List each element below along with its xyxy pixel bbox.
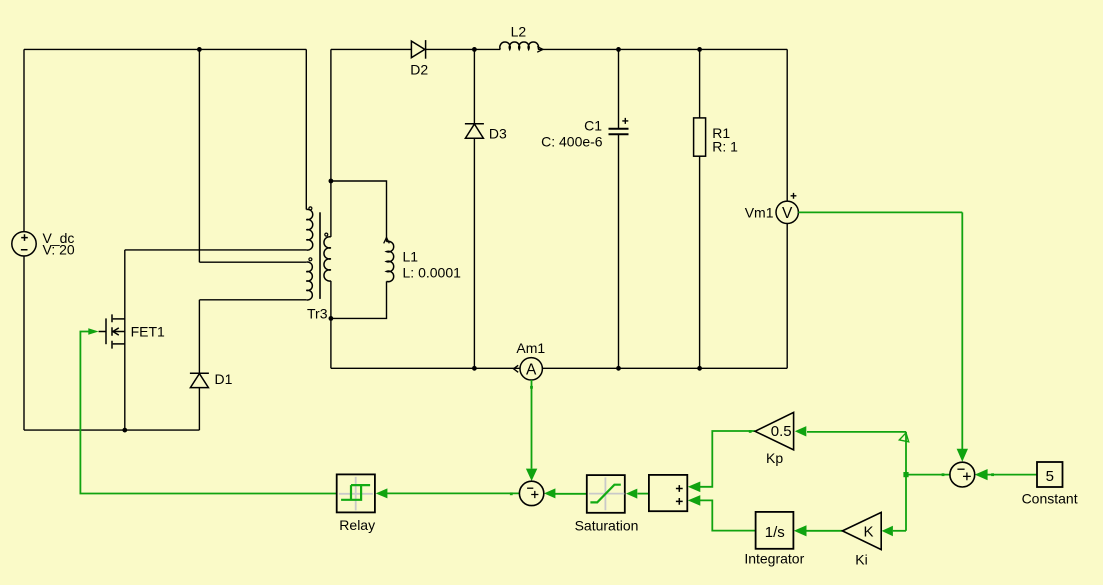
transformer Tr3 secondary winding bbox=[324, 237, 331, 281]
wire primary2 bottom to D1 bbox=[198, 300, 200, 374]
voltmeter Vm1 bbox=[776, 201, 798, 223]
inductor L2 arrow bbox=[537, 47, 543, 53]
inductor L1 bbox=[387, 241, 394, 281]
wire bottom bus right (Am1 to Vm1 corner) bbox=[542, 367, 787, 369]
wire D3 branch lower bbox=[473, 138, 475, 368]
diode D3 bbox=[465, 124, 484, 139]
svg-text:A: A bbox=[526, 362, 537, 379]
wire Integrator output to sum3 bbox=[700, 500, 756, 530]
transformer Tr3 primary 1 polarity dot bbox=[309, 207, 312, 210]
relay gray axes bbox=[339, 477, 373, 511]
wire corner to Ki input bbox=[893, 530, 906, 532]
transformer Tr3 primary 2 polarity dot bbox=[309, 258, 312, 261]
svg-text:Integrator: Integrator bbox=[744, 551, 804, 567]
port stub tick Constant output bbox=[991, 473, 994, 476]
svg-text:FET1: FET1 bbox=[131, 324, 165, 340]
svg-text:L1: L1 bbox=[403, 248, 419, 264]
wire L1 top branch bbox=[331, 181, 387, 242]
arrow into Kp bbox=[795, 426, 807, 436]
svg-text:D1: D1 bbox=[215, 371, 233, 387]
svg-text:C: 400e-6: C: 400e-6 bbox=[541, 134, 603, 150]
port stub tick Kp output bbox=[749, 430, 752, 433]
inductor L2 bbox=[500, 42, 539, 49]
svg-text:Constant: Constant bbox=[1022, 491, 1078, 507]
arrow into sum2 from Constant bbox=[975, 469, 988, 480]
sum2 plus sign bbox=[963, 473, 971, 481]
svg-text:D3: D3 bbox=[489, 125, 507, 141]
arrow into Integrator bbox=[794, 525, 807, 536]
capacitor C1 bbox=[609, 129, 629, 135]
wire left bus top (V_dc to top bus) bbox=[23, 49, 25, 231]
wire bottom bus right (to Am1) bbox=[331, 367, 520, 369]
arrow into FET gate bbox=[88, 328, 98, 335]
wire junction up to Kp corner bbox=[905, 432, 907, 475]
wire L2 to top right corner bbox=[538, 48, 787, 50]
junction bottom bus at C1 bbox=[616, 366, 621, 371]
wire Saturation output to sum1 bbox=[555, 493, 587, 495]
wire Vm1 to sum2 vertical bbox=[961, 212, 963, 449]
junction square on green wire bbox=[903, 472, 908, 477]
sum1 minus sign bbox=[527, 487, 533, 489]
wire R1 upper bbox=[699, 49, 701, 118]
diode D1 bbox=[190, 373, 209, 387]
transformer Tr3 primary 2 winding bbox=[306, 262, 312, 300]
wire sum3 output to Saturation bbox=[638, 493, 649, 495]
wire Vm1 to sum2 horizontal bbox=[798, 211, 962, 213]
wire Ki output to Integrator bbox=[806, 530, 843, 532]
wire Relay output to FET gate bbox=[80, 332, 336, 494]
wire secondary bottom lead bbox=[330, 281, 332, 368]
junction top bus at R1 bbox=[697, 47, 702, 52]
gain Kp triangle bbox=[755, 412, 794, 450]
arrow into Ki bbox=[882, 526, 893, 536]
voltage source V_dc bbox=[12, 232, 36, 256]
wire primary1 bottom lead bbox=[125, 249, 306, 251]
wire Vm1 upper bbox=[786, 49, 788, 201]
svg-text:V: V bbox=[782, 205, 793, 222]
wire corner to Kp input bbox=[807, 431, 906, 433]
wire vertical x=199 (top bus to primary2 top) bbox=[198, 49, 200, 262]
transformer Tr3 core bbox=[319, 212, 321, 299]
resistor R1 bbox=[694, 118, 706, 156]
wire top bus 1 bbox=[24, 48, 306, 50]
wire primary2 bottom lead bbox=[199, 299, 306, 301]
relay block bbox=[337, 474, 375, 512]
junction secondary bottom / L1 bbox=[329, 316, 334, 321]
arrow into Saturation bbox=[626, 489, 637, 499]
wire left bus bottom (V_dc to bottom bus) bbox=[23, 256, 25, 430]
wire bottom bus left bbox=[24, 429, 199, 431]
junction bottom bus / FET source bbox=[122, 428, 127, 433]
svg-text:Relay: Relay bbox=[339, 517, 375, 533]
svg-text:Ki: Ki bbox=[855, 551, 867, 567]
svg-text:1/s: 1/s bbox=[765, 524, 785, 541]
sum block sum2 bbox=[950, 462, 975, 487]
green control wires bbox=[80, 212, 1037, 530]
wire C1 lower bbox=[618, 135, 620, 368]
wire D3 branch upper bbox=[473, 49, 475, 123]
arrow into sum3 lower bbox=[688, 495, 701, 506]
wire C1 upper bbox=[618, 49, 620, 128]
svg-text:Vm1: Vm1 bbox=[745, 204, 774, 220]
junction top bus at D3 bbox=[472, 47, 477, 52]
arrow into Relay bbox=[376, 488, 388, 498]
svg-text:R: 1: R: 1 bbox=[712, 138, 738, 154]
wire Am1 to sum1 bbox=[531, 380, 533, 469]
wire sum1 output to Relay bbox=[387, 492, 519, 494]
voltmeter Vm1 plus sign bbox=[791, 193, 797, 199]
sum3 plus lower bbox=[676, 498, 683, 505]
sum3 block (++) bbox=[649, 475, 687, 511]
wire primary2 top lead bbox=[199, 261, 306, 263]
wire sum2 output to junction bbox=[906, 474, 950, 476]
sum1 plus sign bbox=[531, 491, 538, 498]
wire primary1 top lead bbox=[305, 49, 307, 209]
svg-text:Kp: Kp bbox=[766, 450, 783, 466]
diode D2 bbox=[411, 40, 425, 59]
svg-text:0.5: 0.5 bbox=[771, 423, 792, 440]
sum3 plus upper bbox=[676, 485, 683, 492]
arrow into sum1 from Am1 bbox=[526, 469, 537, 481]
transformer Tr3 secondary polarity dot bbox=[325, 233, 328, 236]
saturation curve bbox=[590, 485, 620, 503]
saturation block bbox=[587, 475, 625, 513]
wire Constant to sum2 bbox=[977, 474, 1038, 476]
svg-text:Tr3: Tr3 bbox=[307, 306, 328, 322]
wire secondary top lead bbox=[330, 49, 332, 237]
relay hysteresis curve bbox=[341, 485, 370, 500]
arrow into sum1 from Saturation bbox=[544, 488, 555, 498]
svg-text:Saturation: Saturation bbox=[575, 517, 639, 533]
transistor Q FET1 bbox=[99, 314, 125, 348]
transformer Tr3 primary 1 winding bbox=[306, 209, 312, 250]
port stub tick sum2 output bbox=[942, 473, 945, 476]
wire D1 to bottom bus bbox=[198, 388, 200, 431]
junction top bus at x=199 bbox=[197, 47, 202, 52]
junction secondary top / L1 bbox=[329, 179, 334, 184]
svg-text:L2: L2 bbox=[511, 23, 527, 39]
ammeter Am1 arrow bbox=[514, 365, 519, 372]
integrator block bbox=[756, 512, 794, 549]
svg-text:5: 5 bbox=[1046, 468, 1054, 485]
arrow into sum3 upper bbox=[688, 482, 701, 493]
wire L1 bottom branch bbox=[331, 281, 387, 318]
ammeter Am1 bbox=[520, 358, 542, 380]
junction bottom bus at D3 bbox=[472, 366, 477, 371]
wire Kp output to sum3 bbox=[700, 431, 755, 487]
constant block bbox=[1037, 462, 1063, 487]
wire junction down to Ki corner bbox=[905, 475, 907, 531]
port stub tick Am1 output bbox=[530, 386, 533, 389]
wire FET1 drain riser and source drop bbox=[124, 250, 126, 430]
port stub tick sum1 output bbox=[510, 492, 513, 495]
inductor L1 arrow bbox=[384, 237, 390, 243]
arrow into sum2 from Vm1 bbox=[957, 449, 968, 462]
svg-text:V: 20: V: 20 bbox=[43, 242, 75, 258]
wire top bus 2 (to D2) bbox=[331, 48, 412, 50]
junction bottom bus at R1 bbox=[697, 366, 702, 371]
wire Vm1 lower bbox=[786, 224, 788, 369]
capacitor C1 plus sign bbox=[622, 118, 628, 124]
wire D2 to D3 node to L2 bbox=[426, 48, 501, 50]
open arrow at green corner bbox=[899, 433, 908, 442]
wire R1 lower bbox=[699, 156, 701, 368]
sum block sum1 bbox=[519, 481, 543, 505]
sum2 minus sign bbox=[957, 468, 964, 470]
svg-text:C1: C1 bbox=[584, 118, 602, 134]
gain Ki triangle bbox=[842, 512, 881, 549]
saturation gray axes bbox=[589, 477, 625, 510]
svg-text:L: 0.0001: L: 0.0001 bbox=[403, 264, 462, 280]
svg-text:D2: D2 bbox=[410, 62, 428, 78]
svg-text:Am1: Am1 bbox=[516, 340, 545, 356]
junction top bus at C1 bbox=[616, 47, 621, 52]
svg-text:K: K bbox=[863, 523, 873, 540]
